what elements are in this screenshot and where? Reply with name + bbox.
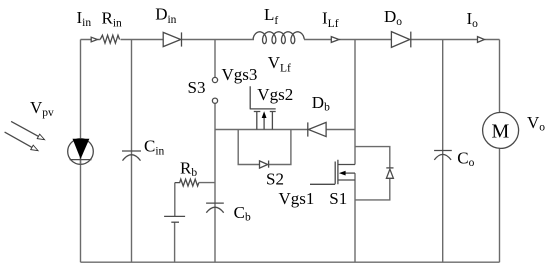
battery cell (164, 215, 185, 217)
light arrow 1 (11, 121, 38, 136)
mosfet S2 (250, 86, 276, 129)
wire x355 branch upper (354, 40, 356, 165)
svg-text:S1: S1 (329, 189, 347, 208)
capacitor C_b (206, 202, 224, 204)
svg-text:Vpv: Vpv (30, 98, 54, 119)
wire bottom rail (81, 261, 500, 263)
PV photodiode triangle (73, 139, 90, 159)
wire C_in branch (131, 40, 133, 263)
mosfet S1 (310, 160, 355, 185)
current arrow I_o (478, 37, 485, 43)
S1 body diode loop (355, 147, 390, 200)
svg-text:Din: Din (155, 5, 176, 27)
svg-text:Cin: Cin (144, 136, 165, 157)
svg-text:Rin: Rin (102, 8, 123, 29)
light arrow 2 (5, 132, 32, 147)
svg-text:Co: Co (457, 148, 474, 169)
capacitor C_o (434, 150, 452, 152)
resistor R_in (100, 35, 119, 43)
motor M (483, 112, 519, 148)
svg-text:VLf: VLf (268, 53, 291, 75)
wire mid horizontal (215, 129, 355, 131)
svg-text:Db: Db (312, 93, 330, 114)
wire S3/Cb branch (214, 40, 216, 263)
svg-text:Lf: Lf (264, 5, 278, 27)
svg-text:S3: S3 (188, 78, 206, 97)
svg-text:S2: S2 (266, 170, 284, 189)
svg-text:Do: Do (384, 7, 402, 28)
svg-text:Vgs2: Vgs2 (257, 85, 293, 104)
svg-text:Cb: Cb (234, 203, 251, 224)
wire left branch (80, 40, 82, 263)
svg-text:Rb: Rb (180, 158, 197, 179)
diode D_o (391, 32, 409, 48)
wire R_b branch (175, 183, 215, 263)
current arrow I_in (91, 37, 97, 42)
S2 body diode loop (238, 130, 291, 165)
diode of S2 loop (260, 161, 268, 168)
svg-text:Vgs1: Vgs1 (279, 189, 315, 208)
diode D_b (308, 122, 326, 136)
wire motor branch (499, 40, 501, 263)
diode D_in (163, 32, 181, 46)
current arrow I_Lf (331, 37, 339, 43)
wire x355 branch lower (354, 173, 356, 262)
diode of S1 loop (points up) (386, 169, 393, 178)
svg-text:Vgs3: Vgs3 (222, 65, 258, 84)
switch S3 contacts (212, 77, 217, 82)
svg-text:Iin: Iin (77, 8, 92, 29)
svg-text:Vo: Vo (527, 113, 545, 134)
svg-text:Io: Io (467, 9, 479, 30)
capacitor C_in (122, 150, 141, 152)
wire C_o branch (442, 40, 444, 263)
svg-text:M: M (492, 121, 510, 143)
resistor R_b (175, 179, 199, 186)
PV source circle (68, 139, 94, 165)
inductor L_f (253, 32, 304, 44)
wire top rail (81, 39, 500, 41)
svg-text:ILf: ILf (322, 8, 339, 30)
PV diode bar (70, 159, 92, 161)
